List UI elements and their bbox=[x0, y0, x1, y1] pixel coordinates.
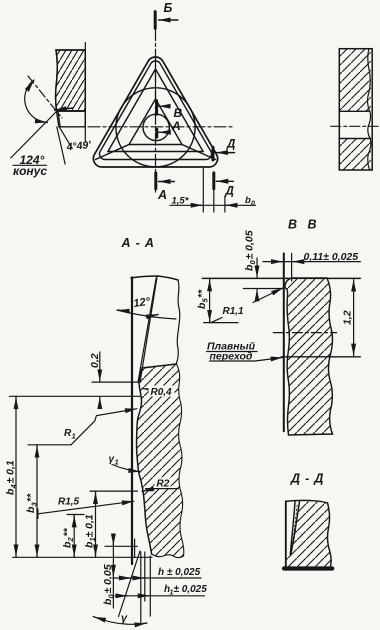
svg-text:4°49': 4°49' bbox=[65, 139, 92, 154]
svg-text:конус: конус bbox=[13, 164, 47, 178]
svg-text:А - А: А - А bbox=[121, 236, 155, 250]
svg-text:переход: переход bbox=[210, 351, 253, 363]
svg-text:1: 1 bbox=[115, 458, 119, 467]
svg-text:± 0,1: ± 0,1 bbox=[84, 514, 96, 537]
svg-text:Д - Д: Д - Д bbox=[290, 472, 324, 486]
svg-text:1,2: 1,2 bbox=[342, 310, 354, 325]
svg-text:1: 1 bbox=[72, 432, 76, 441]
svg-text:R2: R2 bbox=[157, 479, 170, 490]
svg-text:**: ** bbox=[25, 493, 37, 502]
svg-text:Д: Д bbox=[226, 139, 235, 151]
svg-text:Д: Д bbox=[225, 186, 234, 198]
svg-text:γ: γ bbox=[121, 613, 128, 625]
svg-text:**: ** bbox=[62, 527, 74, 536]
svg-text:В: В bbox=[308, 218, 317, 232]
svg-text:h ± 0,025: h ± 0,025 bbox=[158, 567, 201, 578]
svg-text:0: 0 bbox=[251, 201, 255, 208]
svg-text:0,2: 0,2 bbox=[89, 353, 101, 368]
svg-text:12°: 12° bbox=[133, 296, 152, 310]
svg-text:± 0,025: ± 0,025 bbox=[174, 584, 208, 595]
svg-text:± 0,1: ± 0,1 bbox=[5, 460, 17, 483]
svg-text:0,11± 0,025: 0,11± 0,025 bbox=[304, 251, 359, 263]
svg-text:R1,1: R1,1 bbox=[223, 306, 245, 317]
svg-text:В: В bbox=[174, 106, 183, 120]
svg-text:R0,4: R0,4 bbox=[151, 387, 173, 398]
svg-text:В: В bbox=[288, 218, 297, 232]
svg-text:Б: Б bbox=[164, 1, 173, 15]
svg-text:А: А bbox=[157, 188, 167, 202]
svg-text:± 0,05: ± 0,05 bbox=[244, 230, 256, 259]
svg-text:А: А bbox=[171, 119, 181, 133]
svg-text:R1,5: R1,5 bbox=[58, 497, 80, 508]
svg-text:1,5*: 1,5* bbox=[172, 196, 190, 207]
svg-text:**: ** bbox=[196, 289, 208, 298]
svg-text:± 0,05: ± 0,05 bbox=[102, 564, 114, 593]
